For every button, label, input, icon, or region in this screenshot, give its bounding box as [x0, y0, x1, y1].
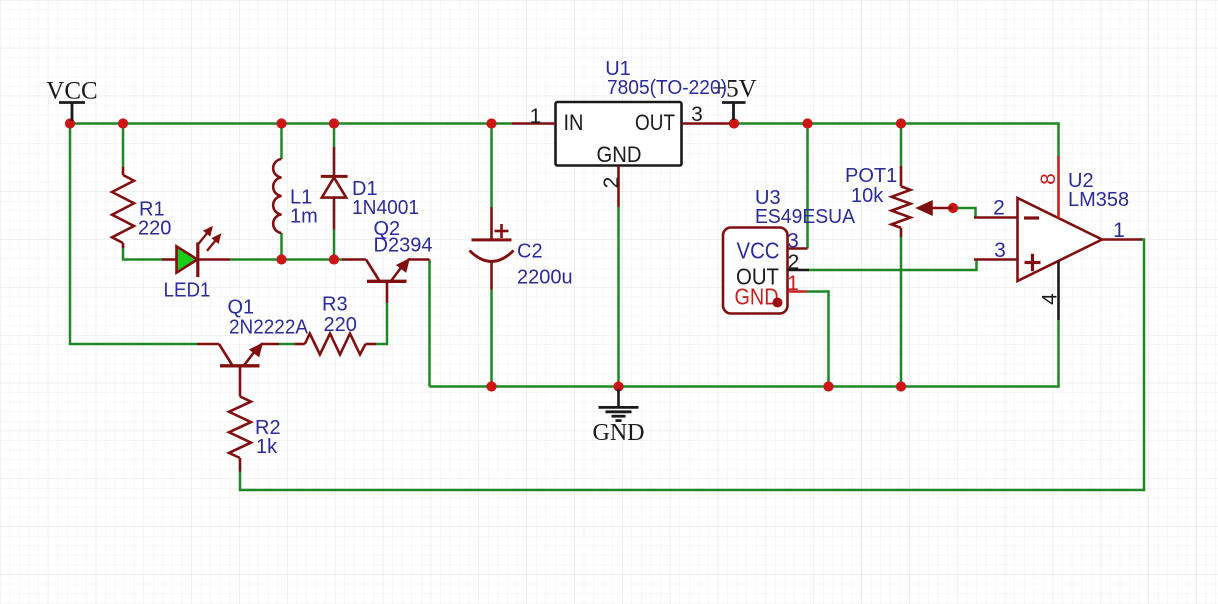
node D1 top junction [329, 118, 339, 128]
resistor R3 [295, 334, 376, 355]
svg-text:GND: GND [735, 284, 779, 310]
U2 pin 4 stub [1057, 261, 1060, 320]
svg-text:GND: GND [593, 420, 645, 446]
U2 pin 2 stub [974, 216, 1018, 219]
node R1 top junction [118, 118, 128, 128]
node C2 ground junction [486, 381, 496, 391]
U3 pin 1 marker dot [773, 298, 783, 308]
op-amp U2 [1018, 198, 1103, 281]
U1 pin 3 stub [682, 122, 731, 125]
capacitor C2 [470, 207, 514, 290]
node Q2 collector junction [329, 254, 339, 264]
U3 pin 3 stub [788, 247, 808, 250]
node GND junction [613, 381, 623, 391]
wire top bus left [70, 122, 512, 125]
node POT1 bottom junction [896, 381, 906, 391]
svg-text:VCC: VCC [737, 238, 780, 264]
wire L1 top [280, 124, 283, 160]
ground symbol [599, 389, 639, 421]
wire Q1 emitter to R3 [279, 343, 295, 346]
wire POT1 top [900, 124, 903, 167]
transistor Q1 [197, 344, 279, 397]
svg-text:3: 3 [994, 239, 1006, 262]
wire U3 pin1 to ground bus [807, 292, 829, 387]
svg-text:2: 2 [600, 177, 623, 189]
transistor Q2 [342, 260, 430, 304]
U2 plus input marker [1025, 254, 1041, 271]
svg-text:LED1: LED1 [164, 280, 211, 302]
IC U3 box [723, 228, 788, 314]
node U3 VCC junction [802, 118, 812, 128]
svg-text:D2394: D2394 [374, 235, 433, 257]
svg-text:2200u: 2200u [517, 267, 573, 289]
svg-text:1: 1 [530, 105, 542, 128]
svg-text:2: 2 [993, 197, 1005, 220]
svg-text:7805(TO-220): 7805(TO-220) [607, 77, 727, 99]
svg-text:LM358: LM358 [1068, 189, 1129, 211]
svg-text:10k: 10k [851, 185, 884, 207]
diode D1 [321, 147, 348, 230]
wire ground bus [430, 320, 1059, 387]
node C2 top junction [486, 118, 496, 128]
U2 minus input marker [1024, 216, 1039, 219]
wire top bus right [734, 124, 1059, 157]
U2 pin 3 stub [974, 258, 1018, 261]
wire U3 pin2 to op-amp plus input [809, 260, 977, 271]
svg-text:2: 2 [788, 251, 800, 274]
inductor L1 [273, 159, 281, 233]
svg-text:GND: GND [597, 142, 642, 167]
svg-text:1m: 1m [290, 206, 318, 228]
svg-text:1N4001: 1N4001 [352, 197, 419, 219]
wire Q2 base to R3 [376, 303, 387, 344]
node wiper junction [948, 203, 958, 213]
wire POT1 bottom to ground bus [900, 237, 903, 387]
svg-text:R3: R3 [322, 294, 348, 316]
node U3 GND junction [823, 381, 833, 391]
svg-text:OUT: OUT [635, 110, 675, 135]
wire C2 bottom [490, 290, 493, 387]
svg-text:1k: 1k [256, 436, 278, 458]
wire D1 bottom [333, 230, 336, 260]
svg-text:1: 1 [1113, 219, 1125, 242]
resistor R1 [112, 167, 134, 248]
U2 pin 1 stub [1102, 238, 1142, 241]
wire R1 top [122, 124, 125, 168]
regulator U1 box [556, 102, 682, 166]
node L1 bottom junction [276, 254, 286, 264]
wire D1 top [333, 124, 336, 148]
wire left rail to Q1 base [70, 124, 197, 345]
wire POT1 wiper to op-amp minus input [953, 208, 976, 218]
wire L1 bottom [280, 233, 283, 260]
svg-text:220: 220 [138, 218, 171, 240]
svg-text:1: 1 [787, 272, 799, 295]
svg-text:3: 3 [787, 230, 799, 253]
wire U3 pin3 to VCC bus [806, 124, 809, 249]
wire R2 to output loop [240, 240, 1144, 491]
potentiometer POT1 [892, 166, 954, 237]
U3 pin 1 stub [788, 290, 808, 293]
wire C2 top [490, 124, 493, 208]
wire R1 bottom to LED [123, 248, 162, 260]
svg-text:C2: C2 [517, 241, 543, 263]
power +5V symbol [722, 103, 746, 121]
svg-text:3: 3 [691, 103, 703, 126]
resistor R2 [229, 397, 251, 472]
LED LED1 [162, 227, 230, 277]
wire Q2 emitter down [428, 260, 431, 387]
svg-text:IN: IN [564, 110, 584, 135]
node L1 top junction [276, 118, 286, 128]
wire LED cathode to Q2 node [230, 258, 342, 261]
U3 pin 2 stub [788, 269, 810, 272]
svg-text:220: 220 [324, 314, 357, 336]
svg-text:Q1: Q1 [228, 297, 255, 319]
svg-text:8: 8 [1037, 173, 1060, 185]
node VCC junction [65, 118, 75, 128]
U1 pin 1 stub [512, 122, 556, 125]
power VCC symbol [59, 103, 85, 122]
svg-text:4: 4 [1039, 293, 1062, 305]
node +5V junction [729, 118, 739, 128]
svg-text:VCC: VCC [46, 78, 97, 105]
svg-text:POT1: POT1 [845, 165, 897, 187]
U2 pin 8 stub [1057, 156, 1060, 219]
svg-text:2N2222A: 2N2222A [229, 317, 309, 339]
svg-text:ES49ESUA: ES49ESUA [755, 206, 856, 228]
node POT1 top junction [896, 118, 906, 128]
wire U1 GND pin to ground bus [617, 207, 620, 387]
U1 pin 2 stub [617, 166, 620, 207]
